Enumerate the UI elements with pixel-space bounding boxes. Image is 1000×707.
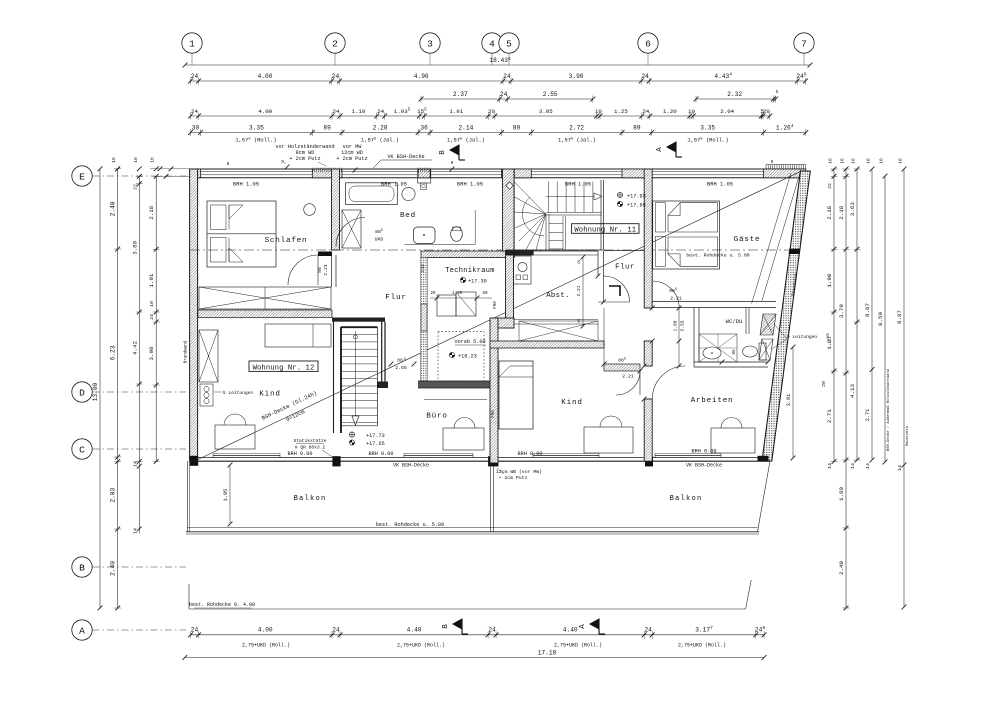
svg-text:88: 88 <box>397 358 403 364</box>
svg-text:24: 24 <box>503 73 511 80</box>
svg-text:6.23: 6.23 <box>110 345 117 360</box>
svg-text:2.03: 2.03 <box>110 487 117 502</box>
room label Flur W11 <box>615 264 635 272</box>
svg-text:Mauerwerk: Mauerwerk <box>905 425 910 446</box>
svg-text:10: 10 <box>150 157 156 163</box>
svg-text:BRH 1.05: BRH 1.05 <box>233 182 259 188</box>
svg-text:3.91: 3.91 <box>786 394 792 406</box>
svg-text:A: A <box>656 147 664 152</box>
top dimension row D <box>188 108 772 120</box>
bathroom WC/DU <box>652 302 776 368</box>
svg-text:89: 89 <box>633 124 641 131</box>
svg-text:1.25: 1.25 <box>614 108 628 115</box>
right dim column 4 - 8.67 <box>864 167 874 469</box>
balcony outline <box>186 456 770 534</box>
door to Schlafen <box>288 255 329 285</box>
svg-text:2.40: 2.40 <box>838 561 845 575</box>
svg-text:2.28: 2.28 <box>373 124 388 131</box>
Technikraum equipment <box>430 292 492 316</box>
svg-text:+ 2cm Putz: + 2cm Putz <box>289 156 320 162</box>
left exterior wall <box>184 169 199 466</box>
svg-text:4.40: 4.40 <box>407 626 422 633</box>
svg-text:4.13: 4.13 <box>849 384 856 398</box>
svg-text:24: 24 <box>644 626 652 633</box>
svg-text:1.10: 1.10 <box>351 108 365 115</box>
Abst top boundary <box>514 251 644 365</box>
svg-text:10: 10 <box>898 158 904 164</box>
svg-text:+18.23: +18.23 <box>458 354 477 360</box>
svg-text:10: 10 <box>828 158 834 164</box>
svg-text:Schlafen: Schlafen <box>265 237 308 245</box>
svg-text:1.19: 1.19 <box>452 292 463 296</box>
svg-text:10: 10 <box>595 108 602 115</box>
svg-text:10: 10 <box>688 108 695 115</box>
svg-text:4.90: 4.90 <box>414 73 429 80</box>
left dim total 13.00 <box>92 166 102 610</box>
svg-text:10: 10 <box>133 157 139 163</box>
svg-text:9: 9 <box>451 160 454 166</box>
window sill labels BRH 1.05 <box>233 182 733 188</box>
staircase Wohnung 11 <box>506 180 604 256</box>
wall Flur/Kind stub <box>332 318 385 322</box>
svg-text:BRH 0.00: BRH 0.00 <box>518 451 543 457</box>
svg-text:2.21: 2.21 <box>323 264 329 276</box>
svg-text:Abst.: Abst. <box>546 292 570 300</box>
right dim column 2 <box>838 167 850 611</box>
tiny wall dims <box>150 159 774 179</box>
svg-text:24: 24 <box>149 314 155 320</box>
WC/DU mini dims <box>720 349 771 364</box>
svg-text:5: 5 <box>506 38 512 49</box>
misc small labels <box>422 264 498 418</box>
wall Gaeste/corridor <box>644 169 652 461</box>
pipe shafts at slant wall <box>759 314 817 360</box>
svg-text:Wohnung Nr. 11: Wohnung Nr. 11 <box>574 226 636 234</box>
top dimension row A total 18.43 <box>183 56 813 68</box>
svg-text:WC/DU: WC/DU <box>726 318 743 325</box>
svg-text:2.18: 2.18 <box>148 205 155 219</box>
svg-text:88: 88 <box>317 267 323 273</box>
svg-text:Arbeiten: Arbeiten <box>691 397 734 405</box>
desk Buero <box>443 418 484 451</box>
svg-text:2.40: 2.40 <box>110 201 117 216</box>
toilet Bed <box>451 227 463 242</box>
top dimension row E <box>188 123 808 136</box>
svg-text:1,575 (Jal.): 1,575 (Jal.) <box>558 137 596 143</box>
svg-text:7: 7 <box>801 38 807 49</box>
svg-text:24: 24 <box>377 108 384 115</box>
svg-text:20: 20 <box>763 108 770 115</box>
svg-text:20: 20 <box>821 381 827 387</box>
right dim column 5 - 8.59 <box>877 174 891 465</box>
svg-text:Brandwand: Brandwand <box>184 340 189 363</box>
reference line <box>190 249 800 251</box>
svg-text:+17.65: +17.65 <box>366 441 385 447</box>
grid axis circles E D C B A <box>72 166 186 640</box>
svg-text:4.40: 4.40 <box>563 626 578 633</box>
svg-text:Balkon: Balkon <box>669 495 702 503</box>
svg-text:A: A <box>79 625 85 636</box>
desk Kind1 <box>215 414 255 449</box>
svg-text:2.32: 2.32 <box>727 91 742 98</box>
svg-text:Kind: Kind <box>259 391 280 399</box>
svg-text:Balkon: Balkon <box>293 495 326 503</box>
svg-text:2.21: 2.21 <box>576 285 582 296</box>
svg-text:3.90: 3.90 <box>569 73 584 80</box>
svg-text:4.42: 4.42 <box>131 341 138 355</box>
svg-text:2,75+UKD (Roll.): 2,75+UKD (Roll.) <box>678 643 726 649</box>
svg-text:+17.30: +17.30 <box>468 279 487 285</box>
svg-text:3.63: 3.63 <box>849 202 856 216</box>
svg-text:BSH-Decke / Außenmaß Holzständ: BSH-Decke / Außenmaß Holzständerwand <box>886 369 891 451</box>
svg-text:Vorab 5.00: Vorab 5.00 <box>454 339 485 345</box>
svg-text:1: 1 <box>189 38 195 49</box>
stool Schlafen <box>304 204 316 216</box>
svg-text:2.71: 2.71 <box>865 409 871 421</box>
svg-text:1,575 (Roll.): 1,575 (Roll.) <box>235 137 276 143</box>
BRH 0.00 labels <box>288 449 717 458</box>
bed Kind2 <box>499 361 533 429</box>
svg-text:2.21: 2.21 <box>670 296 682 302</box>
top dimension row C <box>419 89 779 103</box>
svg-text:3: 3 <box>427 38 433 49</box>
svg-text:B: B <box>439 150 447 155</box>
svg-text:9: 9 <box>771 159 774 165</box>
svg-text:2.04: 2.04 <box>720 108 734 115</box>
svg-text:24: 24 <box>191 108 198 115</box>
shaft next to Bed <box>342 210 361 248</box>
svg-text:14: 14 <box>865 463 871 469</box>
svg-text:Gäste: Gäste <box>734 236 761 244</box>
svg-text:15: 15 <box>578 259 582 264</box>
door corridor to Kind2 <box>604 357 640 395</box>
room label Abst <box>546 292 570 300</box>
left dim top mini labels <box>111 157 158 171</box>
washbasin WC/DU <box>703 347 721 359</box>
svg-text:24: 24 <box>333 108 340 115</box>
svg-text:Kind: Kind <box>561 399 582 407</box>
balcony labels <box>293 495 702 528</box>
slanted right exterior wall <box>762 171 810 461</box>
svg-text:A: A <box>579 624 587 629</box>
svg-text:B: B <box>442 624 450 629</box>
void parapet <box>418 381 490 400</box>
svg-text:14: 14 <box>827 463 833 469</box>
svg-text:E: E <box>79 171 85 182</box>
insulation comb top right <box>766 165 806 170</box>
room label Gaeste <box>686 236 760 259</box>
door Flur to Bed <box>336 218 383 247</box>
svg-text:3.70: 3.70 <box>838 304 845 318</box>
section mark A bottom <box>579 619 605 635</box>
svg-text:22: 22 <box>827 183 833 189</box>
room label Arbeiten <box>691 397 734 405</box>
svg-text:4: 4 <box>489 38 495 49</box>
VK BSH-Decke labels <box>393 463 722 469</box>
svg-text:1.90: 1.90 <box>826 273 833 287</box>
svg-text:6: 6 <box>645 38 651 49</box>
washer column <box>418 169 431 190</box>
bottom facade line and columns <box>190 456 770 466</box>
svg-text:8.67: 8.67 <box>864 303 871 317</box>
svg-text:2.18: 2.18 <box>838 205 845 219</box>
svg-text:BRH 1.05: BRH 1.05 <box>707 182 733 188</box>
door to Arbeiten <box>652 366 685 399</box>
svg-text:F90: F90 <box>494 301 498 309</box>
section mark A top <box>656 142 682 158</box>
svg-text:1.20: 1.20 <box>663 108 677 115</box>
svg-text:B: B <box>79 562 85 573</box>
left dim column 4 <box>148 174 160 464</box>
sink round Bed <box>402 187 415 200</box>
svg-text:Büro: Büro <box>426 413 447 421</box>
svg-text:30: 30 <box>192 124 200 131</box>
left dim column 3 <box>131 174 143 534</box>
svg-text:10: 10 <box>149 301 155 307</box>
wall+door Abst/Flur <box>598 251 630 302</box>
svg-text:24: 24 <box>500 91 508 98</box>
void opening dashed <box>438 332 486 381</box>
svg-text:Technikraum: Technikraum <box>445 267 495 275</box>
svg-text:1.89: 1.89 <box>838 487 845 501</box>
wall Technikraum/Abst <box>506 251 514 328</box>
svg-text:85: 85 <box>733 349 737 355</box>
right dim column 3 <box>849 167 861 469</box>
svg-text:F90: F90 <box>492 410 496 418</box>
pipe panel Kind1 <box>200 384 253 406</box>
svg-text:+17.93: +17.93 <box>627 194 646 200</box>
svg-text:1.91: 1.91 <box>148 273 155 287</box>
svg-text:Wohnung Nr. 12: Wohnung Nr. 12 <box>253 364 315 372</box>
svg-text:24: 24 <box>641 73 649 80</box>
svg-text:# QR 80x3.2: # QR 80x3.2 <box>295 445 326 451</box>
wall Schlafen/Kind <box>198 310 332 318</box>
svg-text:10: 10 <box>840 158 846 164</box>
note 12cm WB <box>496 468 542 481</box>
svg-text:10: 10 <box>851 158 857 164</box>
room label Flur W12 <box>385 294 406 302</box>
svg-text:1,575 (Roll.): 1,575 (Roll.) <box>687 137 728 143</box>
svg-text:2,75+UKD (Roll.): 2,75+UKD (Roll.) <box>242 643 290 649</box>
svg-text:8.87: 8.87 <box>896 310 903 324</box>
gaeste brace lines <box>752 173 800 304</box>
svg-text:2.72: 2.72 <box>569 124 584 131</box>
wardrobe Schlafen <box>199 287 331 309</box>
svg-text:3.35: 3.35 <box>700 124 715 131</box>
svg-text:5: 5 <box>404 358 406 362</box>
svg-text:24: 24 <box>642 108 649 115</box>
svg-text:10: 10 <box>866 158 872 164</box>
svg-text:3.89: 3.89 <box>131 240 138 254</box>
svg-text:20: 20 <box>430 292 436 296</box>
svg-text:24: 24 <box>332 73 340 80</box>
svg-text:36: 36 <box>420 124 428 131</box>
toilet WC/DU <box>743 343 767 360</box>
svg-text:1.95: 1.95 <box>223 489 229 501</box>
desk Kind2 <box>584 416 633 453</box>
svg-text:17.18: 17.18 <box>538 650 557 657</box>
svg-text:2.55: 2.55 <box>543 91 558 98</box>
svg-text:3.05: 3.05 <box>539 108 553 115</box>
svg-text:3.98: 3.98 <box>148 346 155 360</box>
opening dim 88.5/2.55 <box>389 358 417 372</box>
svg-text:C: C <box>79 444 85 455</box>
room label Buero <box>426 413 447 421</box>
level marks stair W11 <box>617 192 645 208</box>
svg-text:2: 2 <box>332 38 338 49</box>
right dim column 1 <box>826 167 838 469</box>
svg-text:Flur: Flur <box>385 294 406 302</box>
kitchen unit Abst <box>514 256 532 284</box>
wall Bed/stairwell W11 <box>503 169 515 251</box>
svg-text:+17.73: +17.73 <box>366 433 385 439</box>
label box Wohnung Nr. 11 <box>572 224 639 235</box>
room label Schlafen <box>265 237 308 245</box>
top dimension row B <box>188 72 808 85</box>
svg-text:2.55: 2.55 <box>680 320 686 331</box>
section mark B bottom <box>442 619 468 635</box>
svg-text:24: 24 <box>191 626 199 633</box>
svg-text:+ 2cm Putz: + 2cm Putz <box>336 156 367 162</box>
svg-text:2.14: 2.14 <box>458 124 473 131</box>
label box Wohnung Nr. 12 <box>249 361 318 372</box>
balcony depth dim 1.95 <box>223 463 232 527</box>
svg-text:8.59: 8.59 <box>877 312 884 326</box>
svg-text:VK BSH-Decke: VK BSH-Decke <box>387 154 424 160</box>
svg-text:BRH 1.05: BRH 1.05 <box>457 182 483 188</box>
wall Schlafen/Bed <box>318 169 340 287</box>
double bed Schlafen <box>207 201 276 267</box>
svg-text:2.21: 2.21 <box>622 374 634 380</box>
svg-text:VK BSH-Decke: VK BSH-Decke <box>686 463 722 469</box>
column note <box>293 438 334 458</box>
svg-text:5: 5 <box>776 89 779 95</box>
svg-text:20: 20 <box>488 108 495 115</box>
svg-text:UKD: UKD <box>375 237 384 243</box>
svg-text:1.91: 1.91 <box>449 108 463 115</box>
svg-text:2,75+UKD (Roll.): 2,75+UKD (Roll.) <box>554 643 602 649</box>
svg-text:Statikstütze: Statikstütze <box>293 438 326 444</box>
svg-text:10: 10 <box>879 158 885 164</box>
svg-text:2,75+UKD (Roll.): 2,75+UKD (Roll.) <box>397 643 445 649</box>
svg-text:13.00: 13.00 <box>92 382 99 401</box>
svg-text:BRH 0.00: BRH 0.00 <box>692 449 717 455</box>
svg-text:BRH 0.00: BRH 0.00 <box>288 451 313 457</box>
svg-text:24: 24 <box>332 626 340 633</box>
staircase Wohnung 12 <box>341 322 388 426</box>
svg-text:89: 89 <box>323 124 331 131</box>
svg-text:best. Rohdecke u. 5.00: best. Rohdecke u. 5.00 <box>686 253 749 259</box>
svg-text:2.18: 2.18 <box>826 205 833 219</box>
stair wall W12 <box>334 322 342 434</box>
svg-text:24: 24 <box>488 626 496 633</box>
door to Gaeste <box>652 281 682 308</box>
corridor mini dim <box>673 306 686 369</box>
tall wardrobe Kind1 <box>199 330 218 382</box>
bottom total dimension 17.18 <box>182 650 766 660</box>
right inner dim 3.91 <box>786 345 827 461</box>
lower storey outline <box>189 580 751 609</box>
svg-text:3.35: 3.35 <box>249 124 264 131</box>
wall Technikraum left <box>421 258 427 382</box>
svg-text:10: 10 <box>111 157 117 163</box>
svg-text:5 Leitungen: 5 Leitungen <box>223 390 254 396</box>
wall Bed/Technikraum <box>421 251 514 258</box>
section mark B top <box>439 145 465 161</box>
svg-text:1.88: 1.88 <box>673 320 679 331</box>
svg-text:15: 15 <box>578 318 582 323</box>
svg-text:22: 22 <box>132 184 138 190</box>
svg-text:Bed: Bed <box>400 212 416 220</box>
svg-text:BRH 1.05: BRH 1.05 <box>565 182 591 188</box>
right dim column 6 - 8.87 <box>896 167 910 610</box>
bottom UKD sub-labels <box>242 643 726 649</box>
svg-text:14: 14 <box>897 465 903 471</box>
room label Bed <box>400 212 416 220</box>
room label Kind W12 <box>259 391 280 399</box>
desk Arbeiten <box>711 418 755 454</box>
svg-text:4.00: 4.00 <box>258 626 273 633</box>
svg-text:18.436: 18.436 <box>489 56 511 64</box>
bed Kind1 <box>265 324 331 347</box>
svg-text:BRH 0.00: BRH 0.00 <box>369 451 394 457</box>
svg-text:89: 89 <box>513 124 521 131</box>
diagonal roof line BSH-Decke <box>198 171 801 459</box>
svg-text:2.71: 2.71 <box>826 409 833 423</box>
svg-text:12cm WB (vor MW): 12cm WB (vor MW) <box>496 469 542 475</box>
double bed Gaeste <box>653 201 720 269</box>
svg-text:14: 14 <box>850 463 856 469</box>
svg-text:+17.65: +17.65 <box>627 203 646 209</box>
fixture line Bed <box>404 210 475 245</box>
svg-text:14: 14 <box>132 461 138 467</box>
bottom dimension row 1 <box>188 625 766 638</box>
bathtub <box>346 183 398 205</box>
room label Kind W11 <box>561 399 582 407</box>
svg-text:best. Rohdecke u. 5.00: best. Rohdecke u. 5.00 <box>376 522 445 528</box>
svg-text:4.00: 4.00 <box>258 108 272 115</box>
svg-text:9,: 9, <box>281 159 286 165</box>
svg-text:VK BSH-Decke: VK BSH-Decke <box>393 463 429 469</box>
washbasin Bed <box>414 227 436 244</box>
door opening ticks <box>596 274 655 402</box>
center party wall <box>490 318 514 463</box>
top exterior wall with windows <box>190 169 806 178</box>
svg-text:best. Rohdecke 0. 4.00: best. Rohdecke 0. 4.00 <box>189 602 255 608</box>
svg-text:9 Leitungen: 9 Leitungen <box>787 334 818 340</box>
svg-text:D: D <box>79 387 85 398</box>
room label Technikraum <box>445 267 495 285</box>
svg-text:2.55: 2.55 <box>395 365 407 371</box>
top window sub-labels 1,57 <box>235 137 728 143</box>
svg-text:8: 8 <box>227 161 230 167</box>
svg-text:24: 24 <box>191 73 199 80</box>
svg-text:BRH 1.05: BRH 1.05 <box>381 182 407 188</box>
balcony sliding door tracks <box>213 453 721 457</box>
svg-text:2.37: 2.37 <box>453 91 468 98</box>
wall Abst/Kind band <box>490 341 604 348</box>
svg-text:2.40: 2.40 <box>110 561 117 576</box>
grid axis circles 1-7 <box>182 33 814 65</box>
left dim column 2 <box>110 166 122 610</box>
svg-text:+ 2cm Putz: + 2cm Putz <box>499 475 528 481</box>
svg-text:1,575 (Jal.): 1,575 (Jal.) <box>361 137 399 143</box>
svg-text:1,575 (Jal.): 1,575 (Jal.) <box>447 137 485 143</box>
cupboard Abst with X <box>514 320 598 342</box>
svg-text:Flur: Flur <box>615 264 635 272</box>
level marks stair W12 <box>349 432 384 447</box>
wall construction notes top <box>275 144 432 168</box>
